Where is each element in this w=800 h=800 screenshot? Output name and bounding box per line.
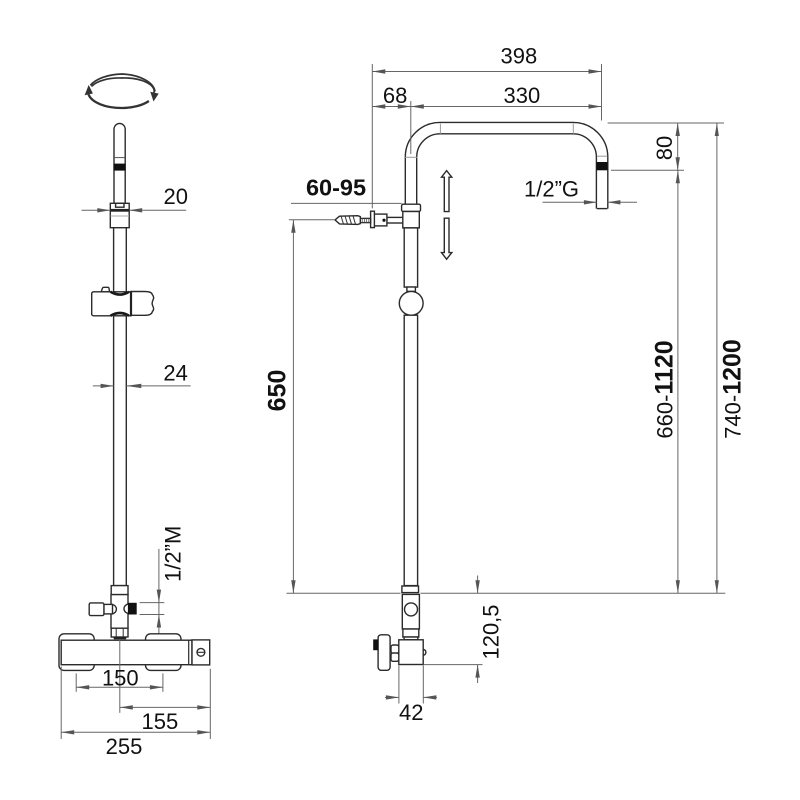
right wall pad — [146, 634, 182, 671]
dimension 650 — [264, 220, 296, 594]
side hex nut — [391, 645, 399, 653]
dimension 740-1200 — [715, 123, 747, 593]
slider knob button — [407, 287, 416, 291]
arm tangent lines — [405, 156, 417, 158]
dimension 398 — [372, 44, 601, 209]
side handle disc — [378, 635, 390, 671]
riser tube upper (block to knob) — [404, 228, 417, 287]
diverter stem — [104, 604, 113, 614]
svg-text:20: 20 — [164, 184, 188, 209]
dimension 150 — [76, 665, 163, 691]
wall union: flange — [371, 211, 375, 227]
shower arm tube — [411, 128, 602, 209]
dimension 660-1120 — [651, 170, 680, 593]
lower nut lip — [114, 637, 127, 639]
dimension 1/2"M — [140, 526, 186, 634]
wall union: neck — [387, 217, 403, 223]
side neck — [404, 637, 418, 640]
bracket notch — [116, 203, 124, 207]
arm outlet bottom cap — [597, 208, 608, 210]
80 lower reference line — [611, 169, 684, 171]
diverter knob — [89, 603, 104, 616]
dimension 20 — [82, 184, 189, 212]
dimension 255 — [61, 667, 210, 760]
wall bracket (20) — [110, 203, 129, 227]
svg-text:255: 255 — [106, 734, 143, 759]
dimension 1/2"G leader — [524, 176, 637, 204]
svg-text:330: 330 — [504, 83, 541, 108]
side mixer block — [399, 640, 423, 665]
outlet round boss — [124, 604, 133, 613]
svg-text:68: 68 — [383, 83, 407, 108]
riser tube long segment — [404, 315, 417, 585]
dimension 80 — [652, 123, 680, 170]
centerline below mixer — [119, 640, 121, 713]
svg-text:120,5: 120,5 — [479, 604, 504, 659]
arm outlet black band — [597, 162, 608, 170]
wall anchor screw — [335, 216, 360, 225]
dimensions 68 / 330 — [372, 83, 601, 154]
end block — [192, 640, 210, 665]
slider block body — [403, 212, 420, 228]
mixer bar — [61, 640, 192, 665]
dimension 24 — [93, 361, 191, 389]
bracket dark slot — [110, 209, 129, 212]
column tube long segment — [114, 316, 127, 586]
wall union: body — [374, 214, 387, 226]
wall anchor screw shaft — [360, 218, 370, 222]
svg-text:1/2”G: 1/2”G — [524, 176, 579, 201]
svg-text:80: 80 — [652, 136, 677, 160]
outlet black square 1/2"M — [128, 603, 137, 615]
svg-text:740-1200: 740-1200 — [719, 339, 747, 439]
svg-text:155: 155 — [142, 709, 179, 734]
wall mounting reference line — [287, 592, 401, 594]
bar neck lines — [188, 640, 190, 665]
rotation symbol — [85, 74, 159, 108]
svg-text:42: 42 — [399, 700, 423, 725]
hand shower holder — [92, 287, 154, 316]
riser lower nut — [402, 586, 419, 593]
up/down adjust arrows — [442, 171, 452, 260]
mixer upper nut (left view) — [111, 586, 128, 595]
650 top extension line — [289, 219, 335, 221]
svg-text:660-1120: 660-1120 — [651, 340, 679, 438]
column tube upper segment — [114, 228, 127, 292]
dimension 155 — [120, 705, 211, 734]
hand shower handle rod — [114, 123, 125, 203]
handle segment line — [114, 157, 125, 159]
svg-text:60-95: 60-95 — [306, 174, 366, 200]
svg-text:1/2”M: 1/2”M — [160, 526, 185, 582]
dimension 120,5 — [424, 576, 504, 684]
top reference line — [608, 122, 724, 124]
svg-text:398: 398 — [501, 44, 538, 69]
side lower nut — [403, 629, 419, 637]
mixer body tube (left view) — [111, 595, 128, 629]
handle black band — [114, 164, 126, 171]
slider ring — [399, 291, 423, 315]
handle black mark — [373, 639, 378, 650]
svg-text:150: 150 — [102, 665, 139, 690]
slider block flange — [402, 204, 421, 211]
connection block with circle — [402, 594, 419, 629]
right screw bump — [423, 649, 426, 655]
mixer lower nut — [111, 628, 128, 637]
svg-text:24: 24 — [163, 361, 187, 386]
svg-text:650: 650 — [264, 370, 292, 412]
end screw — [197, 648, 205, 656]
dimension 42 extensions — [398, 666, 400, 704]
dimension 42 — [385, 695, 437, 725]
left wall pad — [59, 634, 94, 671]
